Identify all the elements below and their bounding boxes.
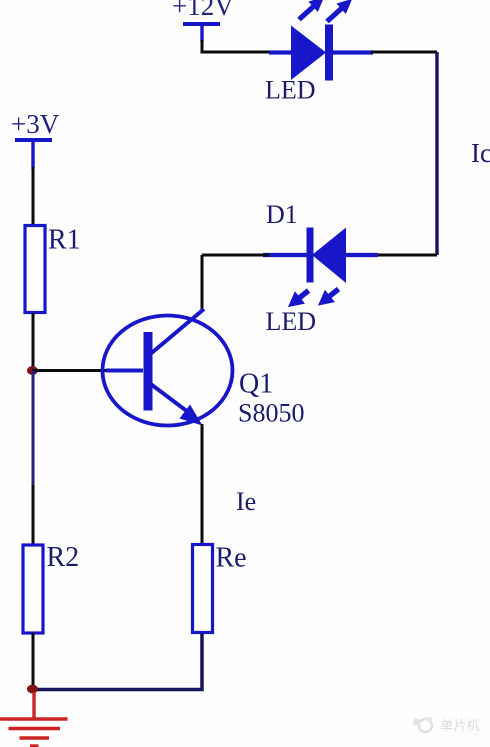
LED1 emission arrow 2 [322, 0, 357, 27]
D1 cathode bar [307, 228, 314, 283]
svg-text:Ie: Ie [236, 487, 256, 516]
wire R1 to base node [32, 313, 35, 371]
wire Ic rail to D1 [377, 254, 437, 257]
transistor Q1 [103, 309, 233, 426]
svg-text:LED: LED [266, 307, 317, 336]
svg-text:D1: D1 [266, 200, 298, 229]
D1 emission arrow 2 [313, 283, 344, 312]
wire base node to R2 lower segment [32, 485, 35, 546]
watermark logo [413, 717, 480, 733]
wire D1 to collector [201, 255, 204, 310]
wire LED1 to Ic rail [371, 51, 437, 54]
wire Ic rail vertical [435, 52, 438, 255]
wire Re to ground rail [31, 633, 202, 690]
svg-text:+3V: +3V [11, 109, 60, 139]
wire base [32, 369, 112, 372]
LED1 triangle [291, 26, 326, 81]
LED1 cathode lead [333, 50, 373, 54]
LED1 emission arrow 1 [294, 0, 329, 25]
power +3V stub [31, 140, 34, 169]
LED1 anode lead [269, 50, 292, 54]
svg-text:R1: R1 [48, 225, 81, 256]
power +12V bar [183, 22, 220, 26]
svg-text:Re: Re [216, 543, 247, 574]
ground [0, 692, 68, 746]
svg-text:+12V: +12V [172, 0, 234, 21]
wire D1 left horizontal [202, 254, 269, 257]
D1 emission arrow 1 [283, 284, 314, 313]
wire +3V to R1 [32, 167, 35, 226]
svg-text:单片机: 单片机 [441, 718, 480, 733]
LED1 cathode bar [325, 25, 333, 81]
svg-text:Q1: Q1 [239, 369, 273, 400]
D1 triangle [312, 228, 346, 284]
wire base node to R2 navy segment [32, 370, 35, 487]
svg-text:LED: LED [265, 76, 316, 105]
power +3V bar [15, 138, 52, 142]
svg-text:S8050: S8050 [238, 399, 304, 428]
resistor Re [193, 545, 213, 633]
resistor R1 [25, 226, 45, 313]
wire emitter to Re [201, 424, 204, 545]
resistor R2 [23, 545, 43, 633]
svg-text:R2: R2 [47, 542, 80, 573]
wire +12V to LED1 [202, 40, 269, 52]
D1 anode lead [345, 253, 378, 257]
power +12V stub [200, 24, 203, 42]
wire R2 to ground node [32, 633, 35, 689]
node base junction [27, 366, 38, 375]
svg-text:Ic: Ic [471, 138, 490, 168]
node ground junction [27, 685, 38, 694]
D1 cathode lead [263, 253, 307, 257]
